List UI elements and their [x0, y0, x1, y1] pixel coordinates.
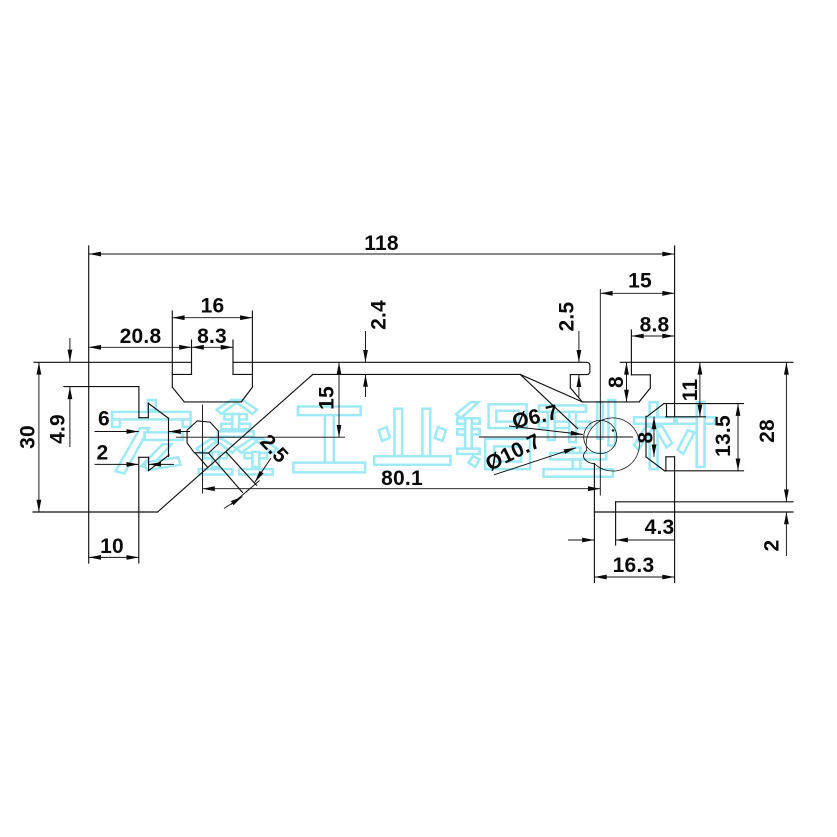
left block inner wall lower (with 10 ext below): [138, 457, 140, 563]
dim 10 line: [89, 556, 139, 558]
upslot left chamfer: [570, 388, 582, 402]
dim 2.5 brace ext line 1: [246, 481, 260, 493]
dim 13.5 line: [737, 404, 739, 471]
central T-slot: right chamfer: [241, 387, 252, 402]
svg-text:15: 15: [316, 386, 339, 410]
profile outline: [33, 246, 793, 583]
svg-text:2: 2: [97, 442, 109, 465]
svg-text:80.1: 80.1: [381, 467, 423, 490]
upslot right wall: [649, 375, 651, 388]
svg-text:118: 118: [364, 232, 399, 255]
upslot right chamfer: [639, 388, 650, 402]
hook: up vertical: [147, 403, 149, 418]
dim 6 left tail: [95, 431, 139, 433]
central T-slot: ledge right: [233, 373, 252, 375]
central T-slot: bottom: [184, 401, 241, 403]
right slot ceiling notch vertical: [666, 404, 668, 417]
big diagonal brace L1: [158, 374, 313, 512]
svg-text:8: 8: [634, 431, 657, 443]
stray speck: [612, 429, 614, 431]
svg-text:28: 28: [756, 419, 779, 443]
watermark char lv: [456, 402, 530, 469]
left boss horizontal centerline (15 ext): [176, 436, 345, 438]
hook: top slant: [148, 403, 168, 418]
svg-text:2: 2: [761, 540, 784, 552]
top surface over web: [233, 361, 581, 363]
left block inner wall upper: [138, 387, 140, 418]
web end rounded step: [570, 362, 590, 374]
dim 30 line: [38, 362, 40, 512]
svg-text:4.3: 4.3: [645, 516, 675, 539]
svg-text:11: 11: [679, 379, 702, 402]
svg-text:13.5: 13.5: [712, 415, 735, 457]
right slot ceiling (13.5 ext beyond): [664, 403, 744, 405]
hook: lower slant: [149, 455, 170, 471]
right slot lip underside (11 ext beyond): [666, 416, 706, 418]
dimension lines: [39, 254, 787, 577]
dim 2 right lower tail: [785, 512, 787, 556]
upslot ceiling: [631, 374, 650, 376]
svg-text:8.8: 8.8: [640, 314, 670, 337]
dim 2.4 lower tail: [365, 375, 367, 398]
dim 80.1 line: [203, 488, 601, 490]
central T-slot: mouth right vertical (8.3 ext): [232, 340, 234, 374]
dim 4.9 lower tail: [69, 387, 71, 447]
right boss vertical centerline (15 / 80.1 ext): [599, 289, 601, 496]
bottom right step vertical (4.3 ext below): [615, 502, 617, 545]
top surface right lip (with 28 extension to right): [620, 361, 793, 363]
svg-text:8: 8: [605, 376, 628, 388]
dim 20.8 line: [89, 346, 192, 348]
svg-text:16.3: 16.3: [613, 554, 655, 577]
dim 28 line: [785, 362, 787, 502]
step tab: vertical: [148, 457, 150, 470]
brace bar edge S2: [226, 452, 256, 485]
central T-slot: left wall (16 ext): [171, 311, 173, 387]
right slot bottom chamfer: [646, 457, 665, 471]
step tab: horizontal: [139, 456, 149, 458]
dim 2.5 top-right lower tail: [578, 375, 580, 397]
leader dia 6.7: [509, 426, 583, 435]
watermark char gong: [293, 406, 365, 472]
upslot left wall: [569, 375, 571, 388]
svg-text:30: 30: [17, 425, 40, 449]
svg-text:10: 10: [100, 535, 124, 558]
web to slot diagonal: [520, 374, 582, 402]
dim 2.5 brace ext line 2: [231, 490, 249, 505]
dim 8.8 line: [631, 335, 674, 337]
dim 2 left tail: [95, 463, 139, 465]
centerlines: [176, 289, 633, 496]
dim 15 right line: [600, 292, 674, 294]
dim 8.3 line: [192, 346, 234, 348]
dim 6 right tail: [169, 431, 191, 433]
central T-slot: ledge left: [172, 373, 191, 375]
web bottom: [313, 373, 520, 375]
bottom right step upper edge (28/2 ext beyond): [616, 501, 793, 503]
right boss notch: [583, 450, 594, 463]
left boss hole octagon: [187, 421, 218, 453]
right slot floor notch vertical: [665, 457, 667, 471]
left edge of profile (with 118 ext above and 10 ext below): [88, 246, 90, 563]
bottom right lower edge (2 ext beyond): [594, 511, 793, 513]
watermark char xing: [539, 400, 615, 477]
dim 2.5 top-right upper tail: [578, 331, 580, 362]
dim 4.3 right tail: [616, 539, 675, 541]
dim 4.9 upper tail: [69, 338, 71, 362]
leader dia 10.7: [494, 448, 576, 475]
central T-slot: left chamfer: [172, 387, 184, 402]
watermark: [112, 400, 715, 477]
strut web to right boss: [521, 375, 578, 428]
right boss outer circle: [586, 418, 639, 471]
left boss vertical centerline (80.1 ext): [202, 405, 204, 494]
right slot top chamfer: [647, 404, 664, 417]
dim 2.5 brace lower tail: [224, 497, 243, 509]
dimension text: [17, 232, 784, 577]
dim 8 top line: [626, 362, 628, 402]
hook: outer vertical: [168, 418, 170, 456]
dim 8 right-slot line: [653, 417, 655, 457]
dim 118 line: [89, 253, 675, 255]
svg-text:6: 6: [98, 408, 110, 431]
bottom left edge (with 30 ext to left): [33, 511, 158, 513]
upslot lip inner vertical (8.8 ext): [630, 330, 632, 375]
dim 4.3 left tail: [568, 539, 594, 541]
right slot back wall: [645, 416, 647, 457]
dim 16.3 line: [594, 576, 674, 578]
dim 2 left right tail: [149, 463, 174, 465]
svg-text:2.5: 2.5: [556, 302, 579, 332]
svg-text:8.3: 8.3: [197, 325, 227, 348]
left block step line y=386.6 (4.9 ext): [64, 386, 139, 388]
upslot bottom: [582, 401, 639, 403]
svg-text:2.4: 2.4: [368, 300, 391, 330]
strut octagon to L1: [195, 453, 208, 468]
watermark char hong: [112, 400, 190, 473]
dim 11 line: [699, 362, 701, 417]
watermark char xin: [197, 400, 278, 475]
svg-text:4.9: 4.9: [47, 414, 70, 444]
right block left wall / leg (16.3 ext below): [593, 464, 595, 583]
brace bar edge S1: [209, 453, 243, 492]
hook: top horizontal: [139, 417, 148, 419]
central T-slot: mouth left vertical (8.3 ext): [191, 340, 193, 374]
top surface left segment (with 30/4.9 extension to left): [34, 361, 192, 363]
watermark char ye: [374, 409, 450, 465]
central T-slot: right wall (16 ext): [251, 311, 253, 387]
dim 2.5 brace upper tail: [255, 458, 271, 482]
svg-text:15: 15: [628, 270, 652, 293]
svg-text:20.8: 20.8: [120, 325, 162, 348]
svg-text:16: 16: [201, 295, 225, 318]
right slot floor (13.5 ext beyond): [665, 470, 744, 472]
dim 16 line: [172, 317, 252, 319]
dim 2.4 upper tail: [365, 331, 367, 362]
watermark char cai: [634, 402, 715, 469]
dim 15 left line: [338, 362, 340, 437]
right edge lower (16.3 ext below): [674, 457, 676, 583]
right boss hole circle: [584, 420, 617, 453]
right boss horizontal centerline: [479, 436, 633, 438]
right slot lip top: [666, 456, 675, 458]
right edge upper (118 ext above): [674, 246, 676, 417]
